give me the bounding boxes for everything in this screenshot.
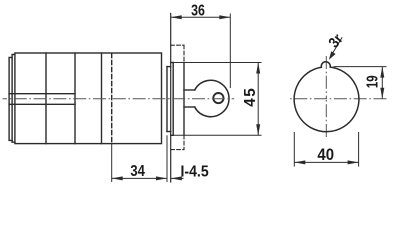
hidden square below xyxy=(183,135,185,149)
dim 45 bottom extension xyxy=(174,134,262,136)
left view centerline xyxy=(3,98,235,100)
dim 4.5 tail xyxy=(171,177,184,179)
key bow neck top xyxy=(184,89,195,91)
collar steps xyxy=(167,66,171,68)
dim 19 line xyxy=(381,67,383,99)
svg-text:36: 36 xyxy=(191,1,205,19)
hidden line body xyxy=(111,54,113,144)
hidden square top edge xyxy=(171,44,184,46)
locating tab r3 xyxy=(321,62,330,68)
right view vertical centerline xyxy=(325,56,327,99)
dim 34 left arrowhead xyxy=(112,176,123,180)
front view circle xyxy=(294,67,359,132)
dim 34 line xyxy=(112,177,167,179)
right view horizontal centerline xyxy=(288,98,387,100)
leader 3r arrowhead xyxy=(329,51,336,60)
dim 40 left arrowhead xyxy=(294,160,305,164)
collar edge xyxy=(166,67,168,132)
dim 40 line xyxy=(294,161,358,163)
flange right edge xyxy=(172,63,174,136)
dim 40 left extension xyxy=(293,132,295,167)
dim 45 top extension xyxy=(174,62,262,64)
svg-text:34: 34 xyxy=(130,163,145,180)
flange top edge xyxy=(171,62,174,64)
body section line 2 xyxy=(74,53,76,144)
hidden square bottom edge xyxy=(171,149,184,151)
key bow circle xyxy=(195,80,229,116)
dim 34 right arrowhead xyxy=(156,176,167,180)
dim 36 right arrowhead xyxy=(219,15,230,19)
flange left edge + extension xyxy=(170,14,172,183)
dim 36 line xyxy=(171,16,231,18)
dim 40 right extension xyxy=(358,132,360,167)
dim 45 bottom arrowhead xyxy=(256,124,260,135)
dim 36 left arrowhead xyxy=(171,15,182,19)
svg-text:40: 40 xyxy=(317,146,334,164)
body section line 1 xyxy=(45,53,47,144)
shaft bottom line xyxy=(9,103,75,105)
left end cap outer xyxy=(12,55,15,143)
key bow hole xyxy=(213,93,223,103)
hidden square above xyxy=(183,45,185,62)
body section line 3 xyxy=(101,53,103,144)
dim 4.5 arrowhead xyxy=(171,176,182,180)
dim 34 right extension xyxy=(166,135,168,182)
dim 19 top extension xyxy=(334,66,387,68)
key bow neck bottom xyxy=(184,106,195,108)
svg-text:45: 45 xyxy=(242,87,259,107)
left end cap inner xyxy=(9,57,12,140)
leader 3r xyxy=(331,37,343,56)
dim 19 bottom arrowhead xyxy=(380,88,384,99)
dim 45 top arrowhead xyxy=(256,63,260,74)
flange bottom edge xyxy=(171,134,174,136)
key cylinder face xyxy=(183,63,185,136)
svg-text:I-4.5: I-4.5 xyxy=(181,164,209,181)
dim 45 line xyxy=(257,63,259,136)
dim 34 left extension xyxy=(111,144,113,182)
dim 36 right extension xyxy=(229,14,231,89)
cylinder body outline xyxy=(15,53,162,144)
dim 19 top arrowhead xyxy=(380,67,384,78)
svg-text:19: 19 xyxy=(364,75,381,88)
dim 40 right arrowhead xyxy=(348,160,359,164)
shaft top line xyxy=(9,93,75,95)
